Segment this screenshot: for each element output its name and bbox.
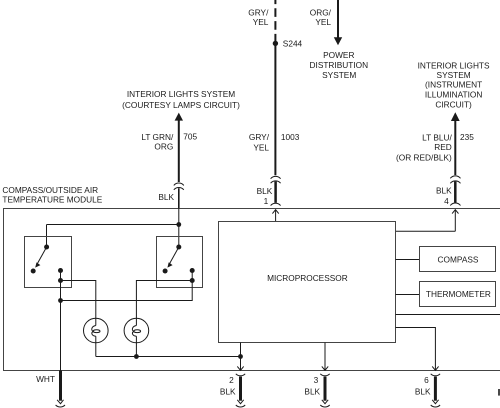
svg-text:SYSTEM: SYSTEM [437,70,471,80]
svg-text:CIRCUIT): CIRCUIT) [435,100,472,110]
svg-text:BLK: BLK [304,386,320,396]
svg-text:705: 705 [183,132,197,142]
svg-text:BLK: BLK [220,386,236,396]
svg-text:INTERIOR LIGHTS SYSTEM: INTERIOR LIGHTS SYSTEM [127,89,235,99]
svg-text:YEL: YEL [253,17,269,27]
svg-text:(INSTRUMENT: (INSTRUMENT [425,80,482,90]
svg-text:YEL: YEL [315,17,331,27]
svg-text:COMPASS/OUTSIDE AIR: COMPASS/OUTSIDE AIR [2,185,98,195]
svg-text:BLK: BLK [415,386,431,396]
svg-text:DISTRIBUTION: DISTRIBUTION [310,60,369,70]
svg-text:235: 235 [460,132,474,142]
svg-text:WHT: WHT [36,374,55,384]
svg-text:BLK: BLK [436,185,452,195]
svg-text:ILLUMINATION: ILLUMINATION [425,89,482,99]
svg-text:SYSTEM: SYSTEM [322,70,356,80]
svg-text:6: 6 [424,375,429,385]
svg-text:GRY/: GRY/ [248,8,269,18]
svg-text:3: 3 [314,375,319,385]
svg-text:MICROPROCESSOR: MICROPROCESSOR [267,273,348,283]
svg-text:THERMOMETER: THERMOMETER [426,289,491,299]
svg-text:2: 2 [229,375,234,385]
svg-text:4: 4 [444,196,449,206]
svg-text:ORG/: ORG/ [310,8,332,18]
svg-text:1003: 1003 [281,132,300,142]
svg-text:ORG: ORG [154,142,173,152]
svg-text:INTERIOR LIGHTS: INTERIOR LIGHTS [418,61,490,71]
svg-text:TEMPERATURE MODULE: TEMPERATURE MODULE [2,195,102,205]
svg-text:1: 1 [264,196,269,206]
svg-text:COMPASS: COMPASS [438,255,479,265]
svg-text:BLK: BLK [158,192,174,202]
svg-text:(OR RED/BLK): (OR RED/BLK) [396,153,452,163]
svg-text:BLK: BLK [257,186,273,196]
svg-text:GRY/: GRY/ [249,132,270,142]
svg-text:LT BLU/: LT BLU/ [422,133,452,143]
svg-text:YEL: YEL [253,142,269,152]
svg-text:S244: S244 [283,38,303,48]
svg-text:POWER: POWER [323,50,354,60]
svg-text:RED: RED [434,142,452,152]
svg-text:(COURTESY LAMPS CIRCUIT): (COURTESY LAMPS CIRCUIT) [122,100,240,110]
